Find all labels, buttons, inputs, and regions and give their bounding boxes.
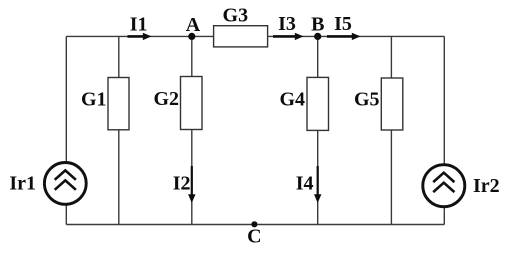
wire G2 branch xyxy=(191,36,193,224)
svg-text:I5: I5 xyxy=(334,13,352,35)
wire G4 branch xyxy=(317,36,319,224)
svg-text:I1: I1 xyxy=(130,13,148,35)
current source Ir2 xyxy=(423,165,500,207)
resistor G3 xyxy=(214,5,268,47)
current arrow I3 xyxy=(273,13,304,40)
node C xyxy=(247,221,261,247)
wire G1 branch xyxy=(118,36,120,224)
svg-text:B: B xyxy=(311,14,324,36)
svg-text:Ir1: Ir1 xyxy=(9,173,36,195)
current arrow I2 xyxy=(173,166,196,203)
wire right vertical xyxy=(443,36,445,224)
resistor G5 xyxy=(354,78,403,130)
svg-text:I2: I2 xyxy=(173,173,191,195)
resistor G4 xyxy=(279,77,328,130)
svg-text:C: C xyxy=(247,226,261,248)
current arrow I5 xyxy=(327,13,361,40)
wire bottom horizontal xyxy=(66,224,444,226)
current arrow I1 xyxy=(128,13,152,40)
svg-text:G2: G2 xyxy=(153,88,179,110)
svg-text:G4: G4 xyxy=(279,89,305,111)
svg-text:G5: G5 xyxy=(354,89,380,111)
svg-text:I4: I4 xyxy=(296,173,314,195)
svg-text:A: A xyxy=(186,14,201,36)
wire left vertical xyxy=(65,36,67,224)
svg-text:Ir2: Ir2 xyxy=(473,175,500,197)
node B xyxy=(311,14,324,41)
wire G5 branch xyxy=(390,36,392,224)
wire top horizontal xyxy=(66,35,444,37)
resistor G1 xyxy=(81,78,129,130)
resistor G2 xyxy=(153,77,202,130)
svg-text:G1: G1 xyxy=(81,89,107,111)
node A xyxy=(186,14,201,40)
svg-text:G3: G3 xyxy=(223,5,249,27)
svg-text:I3: I3 xyxy=(278,13,296,35)
current arrow I4 xyxy=(296,166,322,203)
current source Ir1 xyxy=(9,163,86,205)
